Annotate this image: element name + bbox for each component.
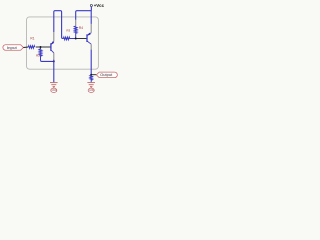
- sheet frame: [27, 17, 99, 69]
- junction node (base of Q1 / R2): [40, 46, 42, 48]
- wire Q2 emitter down to output junction: [90, 50, 92, 75]
- svg-text:GND: GND: [89, 90, 94, 92]
- wire R2 bottom corner to emitter junction: [41, 60, 54, 61]
- resistor R3 zigzag (horizontal): [63, 37, 75, 40]
- resistor R2 zigzag (bias to ground): [39, 49, 42, 60]
- transistor Q2 emitter gray stub: [90, 44, 92, 49]
- transistor Q1 arrow: [51, 41, 54, 45]
- port Output: [96, 72, 117, 78]
- transistor Q2 collector diagonal: [87, 33, 91, 36]
- junction node (Q1 emitter / R2): [53, 60, 55, 62]
- transistor Q2 emitter diagonal: [87, 41, 91, 44]
- resistor R5 zigzag (emitter to ground): [90, 75, 92, 82]
- wire Vcc drop to rail: [90, 7, 92, 11]
- wire Q1 emitter to ground: [53, 60, 55, 83]
- wire input to R1: [23, 46, 28, 49]
- svg-text:GND: GND: [52, 90, 57, 92]
- wire arch over Q1 (collector riser, top, right leg down to R3): [54, 11, 64, 39]
- transistor Q1 collector gray stub: [53, 32, 55, 41]
- svg-text:Output: Output: [100, 73, 112, 77]
- transistor Q1 emitter diagonal: [51, 50, 54, 53]
- wire R1 to junction to Q1 base: [36, 46, 51, 48]
- resistor R1 zigzag (input series): [28, 46, 34, 49]
- transistor Q1 collector diagonal: [51, 41, 54, 44]
- resistor R2 stub down from junction: [40, 47, 42, 49]
- svg-text:+Vcc: +Vcc: [94, 3, 105, 8]
- ground (R5 / output): [87, 83, 95, 89]
- port Input: [3, 45, 24, 51]
- svg-text:R3: R3: [66, 29, 70, 33]
- resistor R4 gray stub (upper): [75, 20, 77, 27]
- svg-text:Input: Input: [7, 46, 17, 50]
- junction node (output tap): [90, 74, 92, 76]
- wire junction to Q2 base: [76, 38, 87, 40]
- transistor Q1 base bar: [50, 43, 52, 51]
- resistor R4 zigzag (vertical from rail): [74, 26, 77, 38]
- svg-text:R2: R2: [36, 53, 40, 57]
- transistor Q1 emitter gray stub: [53, 53, 55, 60]
- junction node (R3/R4/Q2 base): [75, 37, 77, 39]
- wire junction to Output port: [91, 74, 96, 76]
- svg-text:R1: R1: [30, 37, 34, 41]
- svg-text:R4: R4: [79, 26, 83, 30]
- transistor Q2 arrow: [87, 33, 90, 36]
- wire top rail to R4 drop: [76, 11, 92, 20]
- node +Vcc terminal circle: [90, 4, 92, 6]
- wire Q2 collector to rail: [90, 11, 92, 24]
- transistor Q2 collector gray stub: [90, 24, 92, 33]
- transistor Q2 base bar: [86, 34, 88, 42]
- ground (Q1 emitter): [50, 83, 58, 89]
